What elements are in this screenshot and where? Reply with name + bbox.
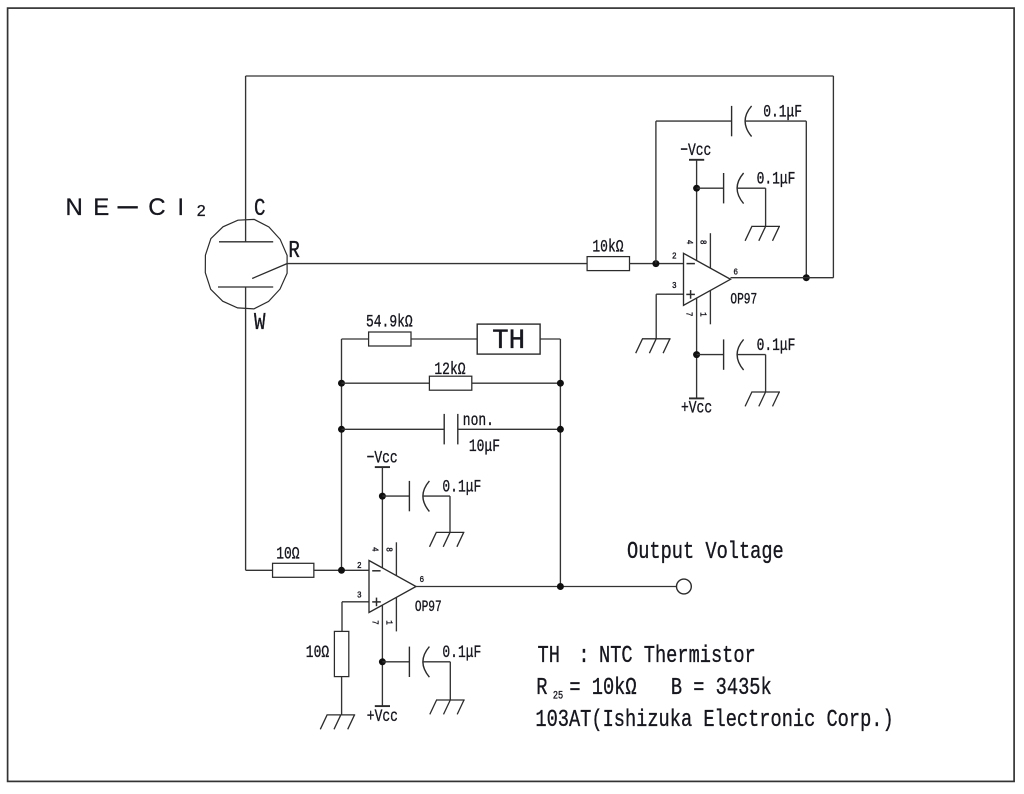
svg-text:0.1μF: 0.1μF xyxy=(442,476,481,497)
svg-text:R: R xyxy=(536,674,547,702)
wire U1 output xyxy=(731,277,834,279)
svg-text:103AT(Ishizuka Electronic Corp: 103AT(Ishizuka Electronic Corp.) xyxy=(535,706,893,734)
U1 pin 7 wire to +Vcc xyxy=(696,298,698,398)
ground 10Ohm xyxy=(327,714,356,716)
note line 1 TH : NTC Thermistor xyxy=(538,642,756,670)
sensor working electrode plate xyxy=(218,286,273,288)
label NE-CL2 part name xyxy=(66,194,206,221)
wire top rail horizontal xyxy=(246,75,834,77)
wire branch2 left segment xyxy=(342,382,430,384)
wire feedback up from inverting node xyxy=(655,121,657,264)
svg-text:R: R xyxy=(288,237,299,265)
wire -Vcc to U1 pin 4 xyxy=(696,160,698,261)
svg-text:W: W xyxy=(254,309,266,337)
svg-text:0.1μF: 0.1μF xyxy=(757,335,796,356)
output terminal circle xyxy=(677,579,692,594)
node U1 pin4 bypass junction xyxy=(693,185,700,192)
ground U1 pin 3 xyxy=(642,338,671,340)
node U1 inverting input junction xyxy=(652,260,659,267)
node branch3 right xyxy=(557,426,564,433)
power -Vcc U2 terminal bar xyxy=(375,466,390,468)
svg-text:25: 25 xyxy=(553,690,563,702)
wire C terminal up to top rail xyxy=(245,76,247,242)
wire top rail down to op-amp U1 output xyxy=(832,76,834,278)
wire branch1 left segment xyxy=(342,338,369,340)
svg-text:0.1μF: 0.1μF xyxy=(442,642,481,663)
wire feedback down to output xyxy=(805,121,807,278)
capacitor C3 0.1uF +Vcc bypass xyxy=(697,354,724,356)
svg-text:NTC Thermistor: NTC Thermistor xyxy=(599,642,756,670)
svg-text:10kΩ: 10kΩ xyxy=(592,237,623,258)
svg-text:C: C xyxy=(254,195,265,223)
svg-text:54.9kΩ: 54.9kΩ xyxy=(366,311,413,332)
wire 10k to U1 inverting input xyxy=(630,263,684,265)
svg-text:3: 3 xyxy=(357,590,362,601)
wire left rail down from branch 1 xyxy=(341,339,343,570)
op-amp U1 OP97 xyxy=(684,253,731,305)
wire U2 output xyxy=(416,586,676,588)
resistor 10kOhm xyxy=(587,257,629,271)
resistor 10Ohm to ground (vertical) xyxy=(334,631,348,676)
wire C4 to ground xyxy=(423,495,450,497)
svg-text:4: 4 xyxy=(684,240,695,245)
wire R terminal to resistor 10k xyxy=(287,263,587,265)
svg-text:E: E xyxy=(93,194,109,221)
svg-text:10Ω: 10Ω xyxy=(276,544,299,565)
note line 2 R25 = 10kOhm B = 3435k xyxy=(536,674,771,702)
wire branch3 left segment xyxy=(342,428,445,430)
node branch2 right xyxy=(557,380,564,387)
capacitor C2 0.1uF -Vcc bypass xyxy=(697,187,724,189)
svg-text::: : xyxy=(578,642,589,670)
svg-text:10Ω: 10Ω xyxy=(306,642,329,663)
wire feedback top to capacitor xyxy=(656,120,732,122)
svg-text:OP97: OP97 xyxy=(730,292,757,309)
svg-text:3: 3 xyxy=(672,280,677,291)
wire U1 pin 3 to ground xyxy=(656,293,683,295)
svg-text:10μF: 10μF xyxy=(469,436,500,457)
svg-text:2: 2 xyxy=(197,203,206,220)
wire -Vcc to U2 pin 4 xyxy=(381,467,383,568)
node U2 pin4 bypass junction xyxy=(379,493,386,500)
capacitor C4 0.1uF -Vcc bypass xyxy=(382,495,409,497)
svg-text:0.1μF: 0.1μF xyxy=(763,101,802,122)
wire C1 to output node xyxy=(745,120,806,122)
svg-text:−Vcc: −Vcc xyxy=(680,140,711,161)
node U2 inverting input junction xyxy=(338,567,345,574)
svg-text:1: 1 xyxy=(697,312,708,317)
power +Vcc U1 terminal bar xyxy=(689,397,704,399)
ground C3 xyxy=(751,391,780,393)
wire TH to right rail xyxy=(540,338,560,340)
U2 plus sign xyxy=(372,601,381,603)
capacitor C5 0.1uF +Vcc bypass xyxy=(382,661,409,663)
capacitor C1 0.1uF feedback xyxy=(731,106,733,136)
svg-text:= 10kΩ: = 10kΩ xyxy=(569,674,636,702)
svg-text:OP97: OP97 xyxy=(415,600,442,617)
node U1 output junction xyxy=(803,274,810,281)
node branch2 left xyxy=(338,380,345,387)
svg-text:−Vcc: −Vcc xyxy=(367,448,398,469)
svg-text:4: 4 xyxy=(369,547,380,552)
wire branch2 right segment xyxy=(472,382,561,384)
wire 10Ohm vertical to ground xyxy=(341,677,343,715)
wire 54.9k to TH xyxy=(411,338,477,340)
resistor 10Ohm input xyxy=(273,563,314,577)
power +Vcc U2 terminal bar xyxy=(375,705,390,707)
U2 minus sign xyxy=(372,570,380,572)
svg-text:12kΩ: 12kΩ xyxy=(434,359,465,380)
svg-text:B = 3435k: B = 3435k xyxy=(671,674,772,702)
wire branch3 right segment xyxy=(458,428,561,430)
ground C5 xyxy=(436,699,465,701)
resistor 12kOhm xyxy=(429,376,471,390)
U2 pin 7 wire to +Vcc xyxy=(381,605,383,706)
wire W to resistor 10 xyxy=(246,569,273,571)
svg-text:+Vcc: +Vcc xyxy=(367,706,398,727)
resistor 54.9kOhm xyxy=(369,332,411,346)
op-amp U2 OP97 xyxy=(369,561,416,613)
ground C4 xyxy=(436,531,465,533)
node U1 pin7 bypass junction xyxy=(693,351,700,358)
U2 pin 1 stub xyxy=(395,597,397,631)
svg-text:1: 1 xyxy=(383,620,394,625)
U2 pin 8 stub xyxy=(395,542,397,576)
sensor NE-CL2 body (electrochemical cell) xyxy=(205,219,287,309)
node branch3 left xyxy=(338,426,345,433)
svg-text:6: 6 xyxy=(420,574,425,585)
svg-text:TH: TH xyxy=(492,326,525,357)
svg-text:0.1μF: 0.1μF xyxy=(757,169,796,190)
svg-text:7: 7 xyxy=(683,312,694,317)
svg-text:2: 2 xyxy=(672,251,677,262)
svg-text:8: 8 xyxy=(383,547,394,552)
wire C5 to ground xyxy=(423,661,451,663)
U1 pin 1 stub xyxy=(709,290,711,324)
svg-text:non.: non. xyxy=(463,410,494,431)
wire U2 pin 3 left and down xyxy=(342,601,369,603)
wire 10Ohm to U2 inverting input xyxy=(314,569,369,571)
sensor reference electrode lead (diagonal) xyxy=(252,264,287,279)
capacitor 10uF non-polar xyxy=(443,414,445,445)
sensor counter electrode plate xyxy=(219,241,273,243)
wire W terminal down xyxy=(245,287,247,570)
svg-text:6: 6 xyxy=(733,267,738,278)
power -Vcc U1 terminal bar xyxy=(689,159,704,161)
svg-text:2: 2 xyxy=(357,560,362,571)
svg-text:I: I xyxy=(177,194,184,221)
node output junction with right rail xyxy=(557,583,564,590)
svg-text:C: C xyxy=(148,194,165,221)
svg-text:+Vcc: +Vcc xyxy=(681,397,712,418)
thermistor TH box xyxy=(477,324,540,354)
svg-text:8: 8 xyxy=(697,240,708,245)
svg-text:Output Voltage: Output Voltage xyxy=(627,538,784,566)
svg-text:7: 7 xyxy=(369,620,380,625)
ground C2 xyxy=(751,225,780,227)
U1 pin 8 stub xyxy=(709,233,711,268)
U1 plus sign xyxy=(686,293,695,295)
wire right rail down xyxy=(559,339,561,587)
U1 minus sign xyxy=(687,263,695,265)
node U2 pin7 bypass junction xyxy=(379,658,386,665)
svg-text:N: N xyxy=(66,194,83,221)
svg-text:TH: TH xyxy=(538,642,560,670)
wire C3 to ground xyxy=(737,354,766,356)
wire C2 to ground xyxy=(737,187,766,189)
